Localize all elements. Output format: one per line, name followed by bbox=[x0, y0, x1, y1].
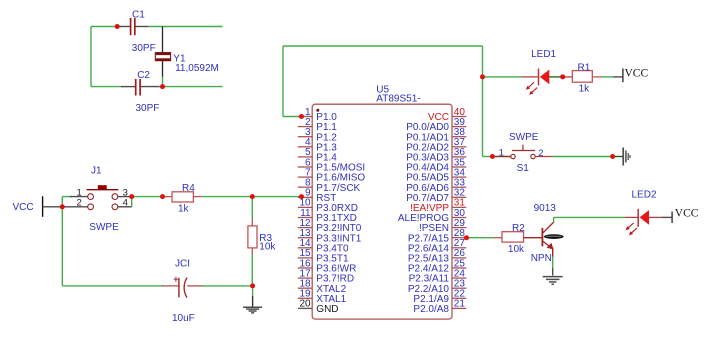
svg-text:P2.0/A8: P2.0/A8 bbox=[413, 304, 449, 315]
svg-text:2: 2 bbox=[538, 148, 543, 159]
svg-text:30PF: 30PF bbox=[136, 103, 160, 114]
svg-text:4: 4 bbox=[123, 197, 128, 208]
svg-text:GND: GND bbox=[316, 304, 338, 315]
svg-text:11,0592M: 11,0592M bbox=[175, 63, 219, 74]
svg-text:SWPE: SWPE bbox=[89, 222, 119, 233]
svg-text:2: 2 bbox=[77, 197, 82, 208]
svg-text:R1: R1 bbox=[578, 63, 591, 74]
svg-text:20: 20 bbox=[299, 299, 311, 310]
svg-text:JCI: JCI bbox=[175, 259, 190, 270]
svg-text:30PF: 30PF bbox=[132, 43, 156, 54]
svg-text:VCC: VCC bbox=[625, 68, 649, 80]
svg-text:VCC: VCC bbox=[13, 202, 34, 213]
svg-text:VCC: VCC bbox=[675, 207, 699, 219]
svg-text:10uF: 10uF bbox=[172, 313, 195, 324]
svg-text:1: 1 bbox=[499, 147, 504, 158]
svg-text:J1: J1 bbox=[91, 166, 102, 177]
svg-text:10k: 10k bbox=[508, 244, 525, 255]
svg-text:R2: R2 bbox=[512, 223, 525, 234]
svg-text:1k: 1k bbox=[579, 84, 591, 95]
svg-text:1k: 1k bbox=[178, 203, 190, 214]
svg-text:AT89S51-: AT89S51- bbox=[376, 94, 420, 105]
svg-text:S1: S1 bbox=[517, 163, 530, 174]
svg-text:C1: C1 bbox=[132, 9, 145, 20]
svg-text:NPN: NPN bbox=[531, 253, 552, 264]
svg-text:21: 21 bbox=[454, 299, 466, 310]
svg-text:SWPE: SWPE bbox=[509, 132, 539, 143]
svg-text:LED1: LED1 bbox=[531, 49, 556, 60]
svg-text:C2: C2 bbox=[137, 70, 150, 81]
svg-text:R4: R4 bbox=[182, 183, 195, 194]
svg-text:10k: 10k bbox=[259, 242, 276, 253]
svg-text:LED2: LED2 bbox=[632, 190, 657, 201]
svg-text:9013: 9013 bbox=[534, 203, 557, 214]
